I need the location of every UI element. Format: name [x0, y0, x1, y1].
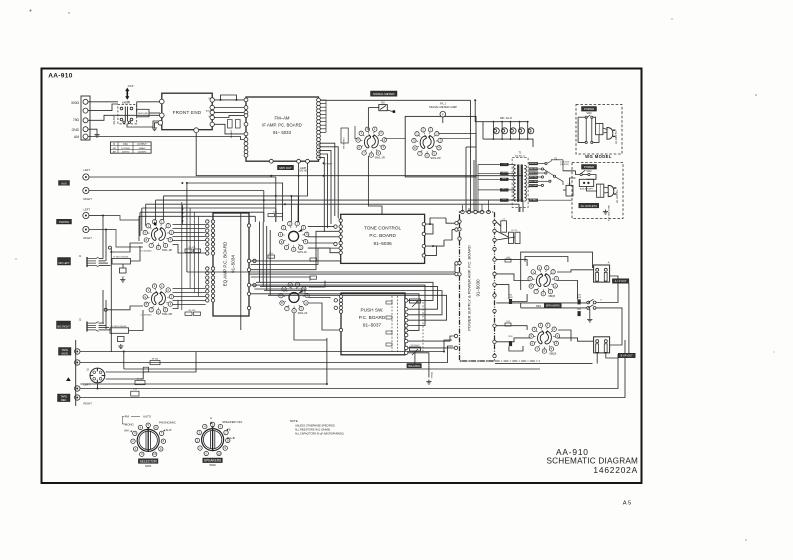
TAPE MON jacks	[59, 348, 72, 356]
svg-text:WG MODEL: WG MODEL	[585, 154, 612, 159]
rotary speakers switch SW2	[195, 422, 230, 455]
svg-text:P.C. BOARD: P.C. BOARD	[369, 233, 396, 238]
scan specks outside frame	[30, 10, 32, 12]
svg-text:MONO: MONO	[125, 422, 135, 426]
junction dot stack	[181, 208, 183, 210]
front end bottom pin	[194, 128, 199, 133]
svg-text:SW1-1B: SW1-1B	[162, 248, 172, 252]
US power dashed enclosure	[572, 163, 623, 219]
svg-text:1462202A: 1462202A	[593, 465, 638, 475]
speaker return bus	[495, 363, 593, 365]
IF right pin stubs	[320, 99, 326, 101]
wires socket V4a to meter line	[367, 128, 369, 131]
output wiring V6	[496, 326, 527, 330]
meter wires	[368, 107, 378, 109]
TAPE REC jacks	[75, 386, 80, 391]
pot upper	[409, 299, 420, 303]
AGC resistor column	[228, 120, 233, 129]
wire bundle IF to sockets splay	[187, 183, 283, 221]
din wires	[106, 352, 196, 372]
extra EQ to tone wires	[251, 248, 339, 264]
svg-text:EQ AMP P.C. BOARD: EQ AMP P.C. BOARD	[223, 241, 228, 286]
svg-text:R 3M LOG500K: R 3M LOG500K	[114, 257, 129, 259]
pot shaft dashed link	[422, 302, 424, 351]
svg-text:ALL RESISTORS IN Ω (OHMS): ALL RESISTORS IN Ω (OHMS)	[295, 428, 330, 431]
svg-text:MIC LEFT: MIC LEFT	[59, 262, 70, 265]
svg-text:ALL CAPACITORS IN µF (MICROFAR: ALL CAPACITORS IN µF (MICROFARADS)	[295, 432, 344, 435]
right vertical link	[628, 283, 630, 353]
rotary selector switch SW1	[131, 423, 166, 456]
push to power wires	[408, 336, 455, 341]
US power wires	[563, 170, 576, 172]
left splay verticals into V1a	[162, 196, 164, 222]
DIN tape socket J3	[90, 368, 105, 383]
wires phono to V1b	[106, 306, 143, 310]
wires mic to V1a	[111, 243, 143, 252]
wires from tone to power left pins	[446, 218, 458, 223]
wires V2b to bundle	[309, 281, 325, 287]
svg-text:POWER SUPPLY & POWER AMP.: POWER SUPPLY & POWER AMP. P.C. BOARD	[467, 245, 472, 331]
EQ AMP PC board 91-5034	[213, 213, 249, 316]
svg-text:LEFT: LEFT	[84, 168, 91, 172]
tube socket V2b	[279, 283, 310, 313]
svg-text:AGC: AGC	[206, 110, 211, 113]
svg-text:A SP OUT: A SP OUT	[615, 279, 627, 283]
POWER SUPPLY and POWER AMP PC board 91-5030	[460, 212, 495, 361]
svg-text:B-25 LINE CORD: B-25 LINE CORD	[609, 205, 611, 221]
svg-text:AM ANT: AM ANT	[230, 129, 233, 137]
push sw right pins	[405, 299, 408, 302]
A block to switch	[596, 276, 618, 303]
svg-text:AC 240V 50–: AC 240V 50–	[615, 129, 618, 143]
svg-text:AUX: AUX	[166, 428, 172, 432]
aux input wires long	[89, 176, 276, 178]
push bottom pin to ground bus	[408, 353, 429, 369]
svg-text:VR504: VR504	[431, 371, 433, 378]
svg-text:AUX: AUX	[61, 181, 67, 185]
svg-text:REC: REC	[61, 398, 67, 402]
svg-text:A: A	[210, 416, 212, 420]
svg-text:AM: AM	[124, 429, 129, 433]
FM-AM IF AMP PC board 91-5033	[246, 97, 319, 161]
vertical from meter area down	[368, 156, 382, 214]
extra vertical stubs power top	[462, 205, 464, 212]
middle verticals	[259, 222, 261, 283]
T1 winding labels left	[500, 163, 508, 166]
IF bottom bus into splay	[271, 175, 523, 177]
output socket V5	[528, 266, 559, 296]
tape mon bus lower	[80, 346, 453, 363]
svg-text:LAMP: LAMP	[300, 167, 307, 170]
svg-text:M2: M2	[381, 101, 385, 104]
svg-text:POWER: POWER	[584, 107, 594, 111]
svg-text:FRONT END: FRONT END	[173, 110, 202, 115]
svg-text:SW1-1R: SW1-1R	[375, 155, 385, 159]
speaker block B	[594, 337, 610, 353]
tone right pins	[422, 222, 425, 225]
A SP OUT label	[612, 279, 629, 284]
power board bottom dash	[460, 360, 541, 362]
svg-text:B SP OUT: B SP OUT	[621, 354, 633, 358]
svg-text:MPX OUT: MPX OUT	[279, 166, 292, 170]
speaker selector switch	[587, 301, 590, 304]
svg-text:91– 5033: 91– 5033	[273, 130, 292, 135]
WG line filter	[596, 123, 603, 134]
svg-text:100 HZ: 100 HZ	[299, 171, 307, 173]
antenna terminal strip	[81, 96, 90, 140]
line filter	[597, 184, 604, 197]
MIC RIGHT jack J2	[57, 321, 71, 329]
long horizontals above tone	[187, 263, 458, 272]
svg-text:SW1-2B: SW1-2B	[162, 312, 172, 316]
PUSH SW PC board 91-5037	[341, 293, 405, 355]
wires front end to IF board	[214, 99, 243, 101]
svg-text:FM ONLY: FM ONLY	[324, 164, 333, 166]
svg-text:SW1-1F: SW1-1F	[297, 250, 307, 254]
svg-text:GRY BRN: GRY BRN	[529, 181, 538, 183]
T1 secondary terminal wires	[538, 163, 545, 165]
T1 core and windings	[517, 165, 519, 202]
svg-text:AM ANT: AM ANT	[113, 115, 116, 124]
power transformer T1 enclosure	[512, 158, 528, 208]
svg-text:AC 120V 60–: AC 120V 60–	[616, 188, 619, 202]
svg-text:SCHEMATIC DIAGRAM: SCHEMATIC DIAGRAM	[547, 456, 639, 465]
svg-text:1400KHZ: 1400KHZ	[138, 152, 148, 154]
svg-text:SPEAKER OFF: SPEAKER OFF	[222, 420, 242, 424]
V4b right pin wires	[440, 138, 470, 140]
svg-text:(2A 250V): (2A 250V)	[560, 163, 569, 166]
wire 300ohm to balun	[88, 101, 118, 103]
wire gnd	[88, 129, 97, 132]
wire balun out	[136, 102, 138, 113]
svg-text:SW2: SW2	[586, 170, 592, 173]
svg-text:PHONO/MIC: PHONO/MIC	[159, 420, 176, 424]
phono wires	[89, 215, 103, 217]
US power switch	[580, 173, 582, 175]
svg-text:POWER: POWER	[584, 165, 594, 169]
power switch diagonal	[544, 169, 554, 176]
T1 SV RED wire to outlets	[538, 199, 572, 201]
junction MPX	[323, 162, 325, 164]
svg-text:RIGHT: RIGHT	[84, 402, 93, 406]
tube socket V2a	[278, 221, 309, 251]
switch feed wires	[496, 302, 587, 304]
interlock cap	[566, 186, 573, 197]
svg-text:MD. No D: MD. No D	[500, 116, 512, 120]
svg-text:SPEAKERS: SPEAKERS	[204, 459, 221, 463]
front end right pins	[210, 98, 214, 102]
speakers label	[544, 303, 561, 307]
svg-text:91–5036: 91–5036	[373, 241, 392, 246]
tone left pins	[339, 219, 342, 222]
svg-text:3 DIP: 3 DIP	[128, 86, 134, 88]
svg-text:91–5034: 91–5034	[231, 255, 236, 273]
svg-text:GRY/BRN: GRY/BRN	[529, 185, 538, 187]
DIP indicator arrow	[125, 88, 129, 95]
svg-text:2 R: 2 R	[133, 389, 137, 391]
svg-text:RIGHT: RIGHT	[84, 197, 93, 201]
interlock receptacle box	[579, 179, 593, 186]
MIC LEFT jack J1	[58, 258, 71, 266]
svg-text:GND: GND	[72, 128, 80, 132]
svg-text:91–5030: 91–5030	[476, 279, 481, 297]
svg-text:6BQ5: 6BQ5	[548, 294, 555, 298]
T1 winding labels right	[529, 162, 538, 165]
junction dots on bundles	[275, 195, 277, 197]
svg-text:LINE: LINE	[125, 102, 130, 104]
svg-text:SW2: SW2	[209, 463, 216, 467]
svg-text:3R 301: 3R 301	[152, 359, 160, 361]
IF board bottom pins	[269, 159, 273, 163]
EQ left pin columns lower	[206, 267, 209, 270]
svg-text:AA-910: AA-910	[48, 73, 73, 80]
svg-text:R 3M LOG500K: R 3M LOG500K	[112, 326, 127, 328]
output wiring V5	[496, 260, 527, 266]
EQ left pin columns upper	[206, 220, 209, 223]
B block bottom wires	[596, 353, 598, 364]
svg-text:SW1-2F: SW1-2F	[298, 311, 308, 315]
components near DIN	[150, 361, 160, 365]
svg-text:C6 500000: C6 500000	[141, 251, 152, 253]
tube socket V4a FM muting	[356, 127, 387, 157]
svg-text:BALANCE: BALANCE	[408, 365, 420, 368]
US POWER label	[582, 165, 597, 170]
mid ground bus	[80, 338, 327, 384]
alignment frequency table	[110, 142, 151, 153]
svg-text:10.7MHZ: 10.7MHZ	[121, 148, 130, 150]
svg-text:SW2: SW2	[586, 112, 592, 115]
power top pins	[461, 210, 464, 213]
label pointer arrows	[163, 429, 165, 431]
jack ground vertical bus	[75, 340, 77, 406]
power right pins	[493, 220, 496, 223]
svg-text:NOTE:: NOTE:	[290, 419, 299, 423]
SIGNAL METER label	[371, 91, 398, 96]
svg-text:FM: FM	[113, 148, 116, 150]
bus EQ to push switch	[251, 260, 341, 262]
vertical bus to power board	[465, 147, 467, 212]
front end gnd	[155, 123, 159, 126]
mic right wires	[99, 322, 105, 324]
svg-text:GRN YEL: GRN YEL	[529, 177, 537, 179]
svg-text:VR 504-2: VR 504-2	[411, 345, 421, 347]
svg-text:C2 C3: C2 C3	[511, 230, 518, 232]
WG plug	[607, 128, 613, 140]
svg-text:TONE CONTROL: TONE CONTROL	[364, 226, 402, 231]
svg-text:MON: MON	[62, 351, 68, 355]
svg-text:AUTO: AUTO	[143, 414, 152, 418]
WG POWER label	[582, 107, 597, 112]
svg-text:SIGNAL METER: SIGNAL METER	[373, 92, 394, 96]
svg-text:OSC: OSC	[123, 144, 128, 146]
svg-text:300Ω: 300Ω	[71, 101, 80, 105]
svg-text:SELECTOR: SELECTOR	[140, 459, 158, 463]
tape rec long bus upper	[80, 354, 618, 389]
svg-text:R5 47K: R5 47K	[189, 247, 196, 249]
coil box	[137, 109, 149, 117]
verticals between sockets	[181, 202, 183, 310]
drawing frame border	[42, 69, 642, 484]
svg-text:91–5037: 91–5037	[363, 323, 382, 328]
AM antenna long wire	[88, 137, 244, 140]
svg-text:A+B: A+B	[229, 436, 235, 440]
mic left R and C	[112, 259, 131, 265]
svg-text:SW1: SW1	[145, 464, 152, 468]
svg-text:TAPE: TAPE	[60, 395, 67, 399]
WG feed wires	[578, 116, 585, 118]
V5 enclosure wires	[521, 252, 593, 290]
svg-text:AM: AM	[74, 135, 79, 139]
IF board right pins	[317, 98, 321, 102]
svg-text:300Ω LINE: 300Ω LINE	[138, 113, 149, 115]
WG MODEL dashed enclosure	[576, 105, 622, 155]
svg-text:LEFT: LEFT	[84, 207, 91, 211]
front end bottom wire to mid bus	[196, 133, 271, 176]
svg-text:PHONO: PHONO	[59, 220, 69, 224]
long bus y369	[124, 368, 540, 370]
V1a pin marker	[154, 223, 157, 226]
svg-text:SW1-2R: SW1-2R	[430, 156, 440, 160]
svg-text:SV RED: SV RED	[530, 200, 538, 202]
tube socket V1b	[143, 284, 174, 314]
svg-text:R6 47K: R6 47K	[189, 310, 196, 312]
B SP OUT label	[618, 353, 635, 358]
speaker block A	[594, 265, 610, 282]
filter caps right of power top	[501, 221, 507, 232]
svg-text:UNLESS OTHERWISE SPECIFIED: UNLESS OTHERWISE SPECIFIED	[295, 424, 335, 427]
T1 left feed wires	[478, 164, 516, 166]
svg-text:FM–AM: FM–AM	[274, 116, 289, 121]
tape mon bus upper	[80, 351, 444, 354]
output socket V6	[529, 323, 560, 353]
svg-text:TAPE: TAPE	[61, 348, 68, 352]
AC OUTLETS label	[579, 203, 599, 208]
balance pot	[409, 347, 420, 351]
small components around V1a	[185, 249, 192, 252]
wires V1b to EQ left pins	[173, 288, 206, 290]
WG switch contacts	[585, 116, 587, 118]
BALANCE label	[407, 364, 422, 368]
svg-text:AM: AM	[113, 151, 116, 154]
push sw left pins	[339, 295, 342, 298]
svg-text:B: B	[229, 427, 231, 431]
push feed bundle	[256, 282, 433, 300]
wire 75ohm to front end	[88, 115, 160, 120]
tube socket V1a	[143, 220, 174, 250]
EQ right pins	[247, 224, 250, 227]
svg-text:P.C. BOARD: P.C. BOARD	[359, 315, 386, 320]
FRONT END tuner block	[162, 93, 212, 130]
svg-text:AC OUTLETS: AC OUTLETS	[581, 204, 598, 208]
right splay verticals	[275, 177, 277, 222]
dual lamp vertical label	[341, 128, 348, 143]
dial lamp feed wire	[320, 99, 470, 101]
balun transformer dashed box	[118, 105, 137, 124]
svg-text:RIGHT: RIGHT	[84, 236, 93, 240]
svg-text:OUTPUT: OUTPUT	[137, 144, 147, 146]
tube socket V4b signal lamp driver	[412, 127, 443, 157]
small components near V2a	[268, 214, 275, 217]
svg-text:FM: FM	[125, 414, 130, 418]
mic right R and C	[110, 328, 129, 334]
volume pot drop	[428, 369, 430, 378]
MPX OUT label	[278, 165, 294, 170]
wires V1a to EQ left pins	[173, 224, 206, 226]
svg-text:455KHZ: 455KHZ	[122, 152, 130, 154]
left vertical bus lines	[102, 216, 104, 254]
IF board left pins	[244, 98, 248, 102]
power left pins	[458, 220, 461, 223]
svg-text:FM MUTING: FM MUTING	[343, 137, 345, 149]
svg-text:A 5: A 5	[623, 501, 631, 507]
svg-text:MIC RIGHT: MIC RIGHT	[57, 326, 70, 329]
push sw internal parts	[397, 296, 399, 352]
svg-text:75Ω: 75Ω	[73, 118, 80, 122]
svg-text:PUSH SW.: PUSH SW.	[361, 308, 384, 313]
tone right wires	[426, 224, 433, 234]
svg-text:98MHZ: 98MHZ	[139, 148, 147, 150]
US plug	[608, 185, 614, 196]
svg-text:GRN WHT: GRN WHT	[529, 168, 539, 170]
svg-text:GRN/YEL: GRN/YEL	[529, 163, 537, 165]
svg-text:6BQ5: 6BQ5	[549, 351, 556, 355]
svg-text:GRN/ORN: GRN/ORN	[529, 172, 539, 174]
svg-text:SPEAKERS: SPEAKERS	[546, 304, 560, 308]
TONE CONTROL PC board 91-5036	[341, 214, 425, 263]
svg-text:IF AMP. PC. BOARD: IF AMP. PC. BOARD	[262, 123, 302, 128]
mic left wires	[99, 258, 104, 260]
svg-text:(54-941-1): (54-941-1)	[515, 156, 525, 158]
front end left pins	[160, 99, 165, 104]
T1 bottom wire	[519, 207, 521, 212]
svg-text:SIGNAL METER LAMP: SIGNAL METER LAMP	[429, 105, 457, 109]
tape rec long bus lower	[80, 340, 625, 398]
meter M2	[379, 105, 388, 111]
shield box around lamp socket	[405, 116, 476, 176]
svg-text:C6 500000: C6 500000	[141, 315, 152, 317]
wires V2a to tone	[308, 226, 334, 228]
svg-text:1.5A 250V: 1.5A 250V	[560, 161, 570, 164]
